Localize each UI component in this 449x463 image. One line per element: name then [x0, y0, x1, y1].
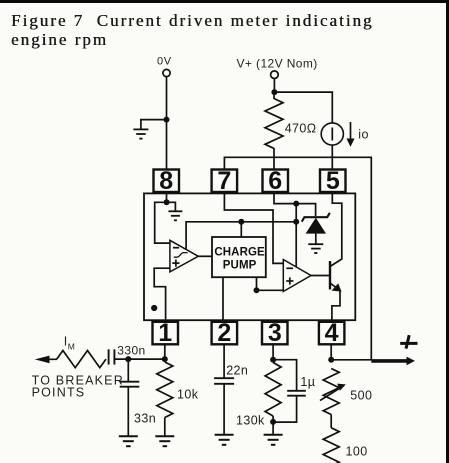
svg-text:500: 500	[350, 388, 372, 402]
svg-text:100: 100	[346, 445, 368, 459]
svg-text:130k: 130k	[236, 414, 265, 428]
svg-text:22n: 22n	[226, 364, 248, 378]
svg-text:CHARGE: CHARGE	[214, 246, 265, 258]
svg-text:6: 6	[268, 167, 282, 195]
svg-text:330n: 330n	[117, 343, 145, 357]
svg-text:4: 4	[325, 319, 339, 347]
svg-text:POINTS: POINTS	[32, 386, 86, 400]
svg-text:2: 2	[217, 319, 231, 347]
svg-text:PUMP: PUMP	[223, 260, 257, 272]
svg-text:3: 3	[268, 319, 282, 347]
svg-text:8: 8	[159, 167, 173, 195]
svg-text:7: 7	[217, 167, 231, 195]
svg-text:5: 5	[326, 167, 340, 195]
svg-text:1: 1	[158, 319, 172, 347]
svg-text:1µ: 1µ	[300, 375, 315, 389]
svg-text:io: io	[358, 128, 369, 142]
svg-text:0V: 0V	[157, 55, 172, 67]
svg-text:M: M	[68, 341, 75, 351]
svg-text:10k: 10k	[177, 388, 199, 402]
svg-text:33n: 33n	[134, 412, 156, 426]
svg-text:V+ (12V Nom): V+ (12V Nom)	[237, 57, 318, 71]
svg-text:470Ω: 470Ω	[285, 121, 317, 135]
